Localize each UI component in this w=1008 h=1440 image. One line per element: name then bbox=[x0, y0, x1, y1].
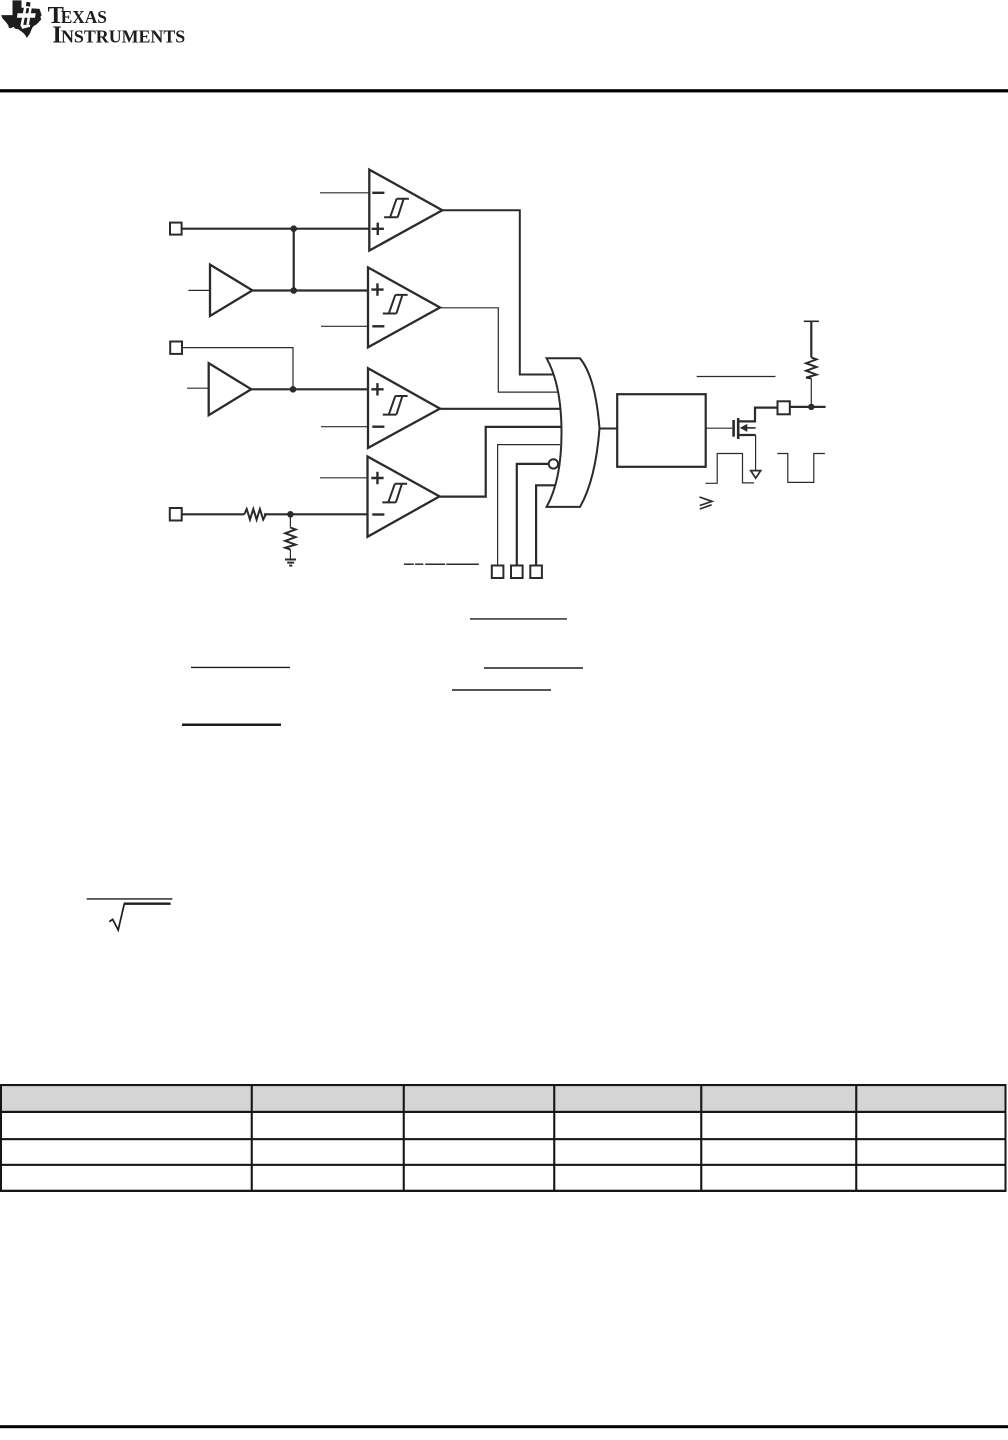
wire C3 output to OR gate input 3 bbox=[440, 408, 562, 410]
input terminal J3 (third square) bbox=[170, 508, 182, 521]
wire C4 output to OR gate input 4 bbox=[440, 427, 563, 497]
node D junction dot bbox=[287, 511, 294, 518]
C3 plus sign bbox=[371, 383, 383, 395]
C1 hysteresis symbol bbox=[384, 199, 409, 218]
wire supply to resistor R3 bbox=[810, 321, 812, 357]
label underline B bbox=[191, 666, 290, 668]
wire J2 right then down to node C bbox=[182, 348, 293, 390]
supply rail bar bbox=[804, 320, 819, 322]
buffer U2 input stub bbox=[187, 387, 209, 389]
Q1 body arrow bbox=[747, 427, 756, 429]
C4 minus sign bbox=[372, 513, 384, 515]
wire node D down to resistor R2 bbox=[289, 514, 291, 527]
wire J3 to resistor R1 bbox=[182, 513, 245, 515]
radical overbar bbox=[124, 903, 171, 905]
bottom terminal square 1 bbox=[492, 566, 504, 579]
svg-text:NSTRUMENTS: NSTRUMENTS bbox=[61, 27, 185, 47]
table bbox=[0, 1084, 1007, 1192]
comparator C2 bbox=[368, 267, 440, 347]
underlines bbox=[87, 619, 583, 930]
wire Q1 source down bbox=[755, 435, 757, 470]
equation radical sign bbox=[109, 904, 124, 930]
comparator C4 bbox=[368, 457, 440, 537]
TI wordmark bbox=[48, 2, 186, 49]
table column borders bbox=[0, 1084, 1007, 1192]
open arrowhead down bbox=[751, 471, 761, 479]
C4 plus sign bbox=[371, 472, 383, 484]
node B junction dot bbox=[290, 287, 297, 294]
schematic bbox=[170, 170, 826, 578]
resistor R3 (pull-up) bbox=[806, 357, 816, 378]
equation fraction bar bbox=[87, 898, 173, 900]
wire node A down to node B bbox=[293, 229, 295, 291]
top rule bbox=[0, 89, 1008, 92]
wire R1 to comparator C4 minus with node D bbox=[264, 513, 368, 515]
C2 hysteresis symbol bbox=[383, 295, 408, 314]
wire pad to output net bbox=[790, 406, 826, 408]
transistor Q1 gate bar bbox=[732, 420, 735, 437]
resistor R1 (series) bbox=[244, 509, 266, 520]
C4 hysteresis symbol bbox=[382, 484, 407, 503]
node A junction dot bbox=[290, 225, 297, 232]
table outer and row borders bbox=[0, 1084, 1007, 1192]
wire J1 to node A and comparator C1 plus bbox=[182, 228, 370, 230]
input terminal J1 (top left square) bbox=[170, 223, 182, 235]
C4 plus input stub bbox=[320, 477, 368, 479]
block U4 (driver/deglitch) bbox=[617, 394, 706, 467]
C2 plus sign bbox=[371, 283, 383, 295]
comparator C3 bbox=[368, 368, 440, 448]
wire bottom terminal 2 to OR gate inverted input bbox=[517, 464, 549, 566]
comparator C1 minus input stub bbox=[320, 192, 369, 194]
bottom rule bbox=[0, 1425, 1008, 1428]
transistor Q1 channel bar bbox=[737, 418, 740, 439]
ground bbox=[285, 560, 296, 566]
heading underline E (bold) bbox=[182, 723, 281, 726]
Q1 drain lead up to output pad bbox=[739, 408, 778, 422]
wire U2 output to comparator C3 plus bbox=[251, 388, 368, 390]
dashed label line near bottom terminals bbox=[404, 563, 479, 565]
TI logo Texas-map bug bbox=[1, 0, 41, 38]
resistor R2 (pull-down) bbox=[285, 528, 295, 550]
node C junction dot bbox=[290, 386, 297, 393]
OR gate inverted-input bubble bbox=[549, 459, 558, 468]
label underline C bbox=[484, 667, 583, 669]
output terminal pad bbox=[778, 401, 790, 414]
wire C1 output to OR gate input 1 bbox=[442, 210, 562, 374]
label underline A bbox=[470, 618, 567, 620]
pulse waveform 2 bbox=[777, 454, 825, 483]
Q1 source lead bbox=[739, 434, 756, 436]
C3 minus sign bbox=[372, 426, 384, 428]
C1 minus sign bbox=[372, 192, 384, 194]
pulse waveform 1 bbox=[705, 454, 754, 484]
wire bottom terminal 3 to OR gate input 7 bbox=[536, 485, 560, 565]
C3 hysteresis symbol bbox=[383, 396, 408, 415]
wire C2 output to OR gate input 2 bbox=[440, 308, 562, 392]
buffer U2 bbox=[209, 363, 252, 415]
wire OR gate output to block U4 bbox=[600, 428, 618, 430]
bottom terminal square 2 bbox=[511, 566, 523, 579]
label overline above output bbox=[697, 376, 776, 378]
wire U1 output to comparator C2 plus bbox=[252, 289, 368, 291]
wire R3 to node E bbox=[810, 378, 812, 407]
C1 plus sign bbox=[372, 223, 384, 235]
comparator C1 bbox=[369, 170, 442, 251]
wire bottom terminal 1 to OR gate input 5 bbox=[498, 445, 560, 566]
C3 minus input stub bbox=[321, 426, 368, 428]
label underline D bbox=[452, 689, 551, 691]
wire U4 to MOSFET Q1 gate bbox=[706, 427, 733, 429]
input terminal J2 (second square) bbox=[170, 342, 182, 354]
C2 minus input stub bbox=[321, 325, 368, 327]
C2 minus sign bbox=[372, 325, 384, 327]
bottom terminal square 3 bbox=[530, 566, 542, 579]
node E junction dot bbox=[808, 404, 814, 410]
buffer U1 input stub bbox=[188, 289, 210, 291]
wire R2 to ground bbox=[289, 550, 291, 560]
table header fill bbox=[1, 1085, 1006, 1112]
greater-equal symbol bbox=[700, 497, 713, 509]
OR gate U3 bbox=[547, 358, 600, 507]
buffer U1 bbox=[210, 265, 252, 316]
svg-text:EXAS: EXAS bbox=[61, 7, 107, 27]
